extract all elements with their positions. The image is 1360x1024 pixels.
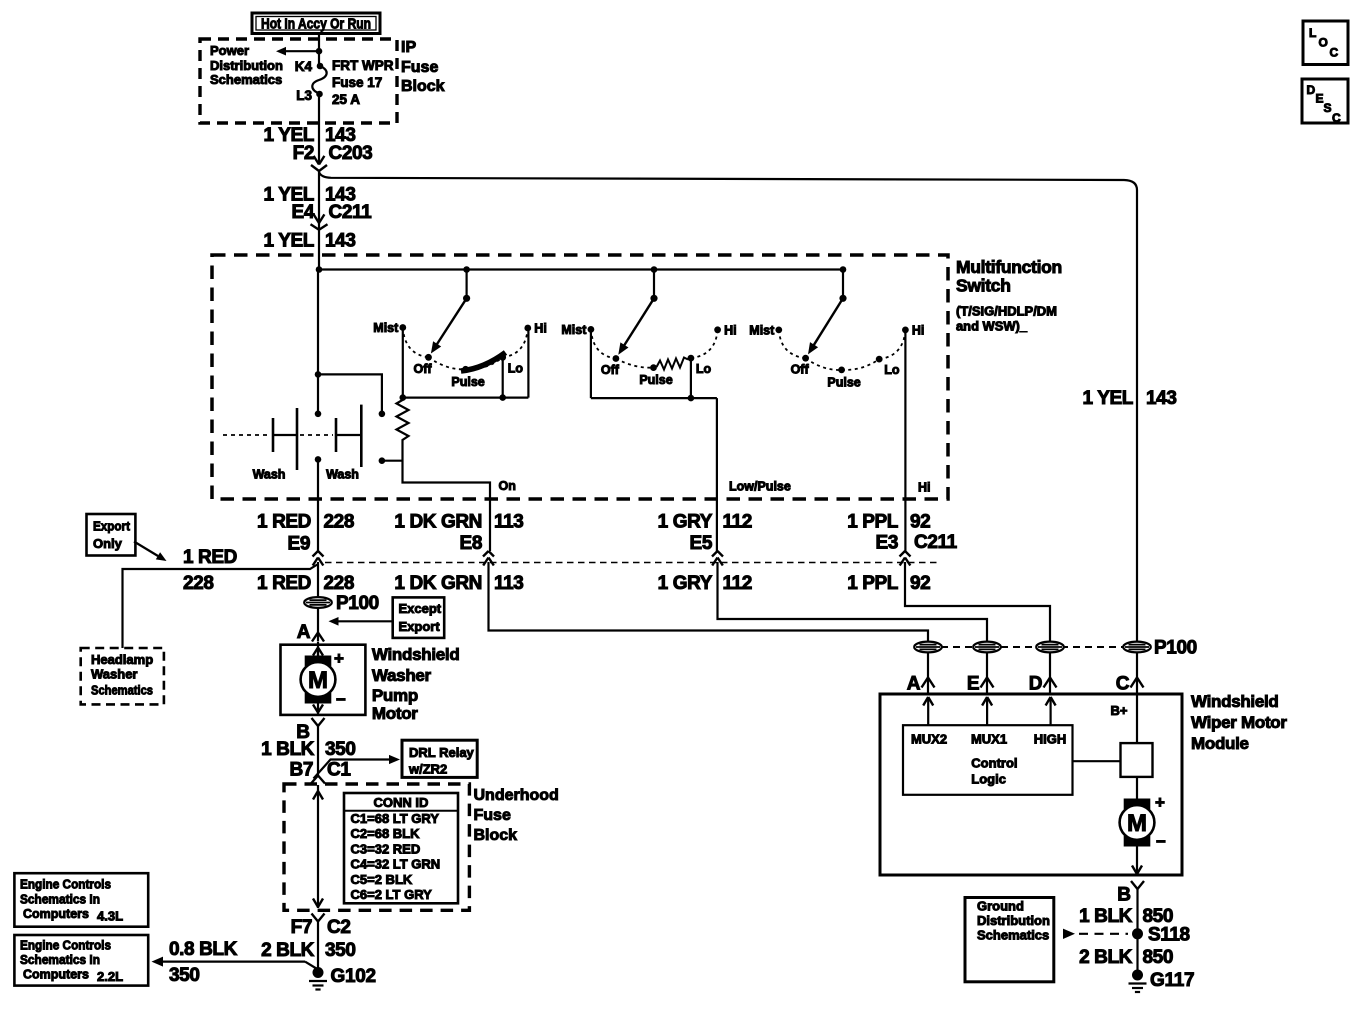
svg-text:Lo: Lo	[508, 361, 524, 375]
svg-text:C2=68 BLK: C2=68 BLK	[351, 826, 421, 841]
svg-text:C5=2 BLK: C5=2 BLK	[351, 872, 413, 887]
svg-text:P100: P100	[336, 593, 379, 614]
svg-text:P100: P100	[1154, 638, 1197, 659]
svg-text:IP: IP	[401, 39, 416, 56]
svg-text:1 RED: 1 RED	[257, 573, 311, 594]
svg-text:Logic: Logic	[971, 772, 1006, 787]
svg-text:Control: Control	[971, 756, 1017, 771]
svg-text:E4: E4	[292, 202, 315, 223]
svg-text:1 YEL: 1 YEL	[1083, 388, 1134, 409]
svg-text:1 RED: 1 RED	[183, 547, 237, 568]
svg-text:+: +	[1155, 793, 1165, 812]
svg-text:B+: B+	[1111, 703, 1128, 718]
svg-text:Mist: Mist	[373, 321, 399, 335]
svg-text:Washer: Washer	[91, 667, 137, 682]
svg-text:G102: G102	[331, 966, 376, 987]
svg-text:G117: G117	[1150, 970, 1194, 991]
svg-text:Windshield: Windshield	[372, 645, 460, 664]
svg-text:25 A: 25 A	[332, 92, 360, 107]
svg-text:MUX1: MUX1	[971, 732, 1007, 747]
svg-text:1 DK GRN: 1 DK GRN	[394, 573, 482, 594]
svg-text:228: 228	[324, 512, 355, 533]
svg-text:Power: Power	[210, 43, 249, 58]
svg-text:(T/SIG/HDLP/DM: (T/SIG/HDLP/DM	[956, 305, 1057, 319]
svg-text:CONN ID: CONN ID	[374, 795, 429, 810]
svg-text:Off: Off	[413, 362, 432, 376]
svg-text:Export: Export	[93, 519, 131, 534]
svg-text:HIGH: HIGH	[1034, 732, 1067, 747]
svg-text:−: −	[1156, 832, 1166, 851]
svg-text:E9: E9	[288, 534, 310, 555]
svg-text:C: C	[1330, 46, 1339, 60]
svg-text:2 BLK: 2 BLK	[1079, 947, 1133, 968]
svg-text:Engine Controls: Engine Controls	[20, 938, 111, 953]
svg-text:D: D	[1307, 83, 1316, 97]
svg-text:113: 113	[494, 573, 523, 594]
svg-text:Pump: Pump	[372, 686, 418, 705]
svg-text:Hi: Hi	[912, 323, 925, 337]
svg-text:C1: C1	[327, 760, 351, 781]
svg-text:Engine Controls: Engine Controls	[20, 877, 111, 892]
svg-text:D: D	[1029, 674, 1043, 695]
svg-text:1 PPL: 1 PPL	[847, 573, 899, 594]
svg-text:4.3L: 4.3L	[97, 909, 123, 924]
svg-text:350: 350	[169, 965, 200, 986]
svg-text:Only: Only	[93, 536, 123, 551]
svg-text:Windshield: Windshield	[1191, 692, 1279, 711]
svg-text:−: −	[336, 690, 346, 709]
svg-text:143: 143	[1146, 388, 1177, 409]
svg-text:E5: E5	[690, 533, 713, 554]
svg-text:Schematics: Schematics	[977, 928, 1049, 943]
svg-text:Computers: Computers	[23, 967, 89, 982]
svg-text:Ground: Ground	[977, 899, 1024, 914]
svg-text:DRL Relay: DRL Relay	[409, 745, 475, 760]
svg-text:228: 228	[324, 573, 355, 594]
svg-text:Mist: Mist	[561, 323, 587, 337]
svg-text:Hi: Hi	[534, 322, 547, 336]
svg-text:On: On	[499, 479, 516, 493]
svg-text:Off: Off	[601, 363, 620, 377]
svg-text:w/ZR2: w/ZR2	[408, 762, 447, 777]
svg-text:Motor: Motor	[372, 704, 418, 723]
svg-text:850: 850	[1143, 947, 1174, 968]
svg-text:E: E	[1316, 92, 1324, 106]
svg-text:92: 92	[910, 512, 930, 533]
svg-text:Export: Export	[399, 619, 441, 634]
svg-text:MUX2: MUX2	[911, 732, 947, 747]
svg-text:1 YEL: 1 YEL	[264, 231, 315, 252]
svg-text:Fuse: Fuse	[401, 59, 438, 76]
svg-text:Washer: Washer	[372, 666, 432, 685]
svg-text:L: L	[1309, 26, 1316, 40]
svg-text:1 BLK: 1 BLK	[261, 739, 315, 760]
svg-text:Distribution: Distribution	[210, 58, 283, 73]
svg-text:M: M	[1127, 810, 1147, 837]
svg-text:Mist: Mist	[749, 323, 775, 337]
svg-text:Lo: Lo	[696, 362, 712, 376]
svg-text:2.2L: 2.2L	[97, 969, 123, 984]
svg-text:S: S	[1324, 101, 1332, 115]
svg-text:C1=68 LT GRY: C1=68 LT GRY	[351, 811, 440, 826]
svg-text:O: O	[1319, 36, 1328, 50]
svg-text:E: E	[967, 674, 980, 695]
svg-text:C: C	[1116, 674, 1130, 695]
svg-text:Except: Except	[399, 601, 442, 616]
svg-text:C211: C211	[914, 532, 958, 553]
svg-text:Pulse: Pulse	[827, 375, 860, 389]
svg-text:Multifunction: Multifunction	[956, 257, 1062, 277]
svg-text:0.8 BLK: 0.8 BLK	[169, 939, 238, 960]
svg-text:350: 350	[325, 940, 356, 961]
svg-text:1 PPL: 1 PPL	[847, 512, 899, 533]
svg-text:112: 112	[723, 512, 752, 533]
svg-text:113: 113	[494, 512, 523, 533]
svg-text:Fuse: Fuse	[474, 807, 511, 824]
svg-text:C3=32 RED: C3=32 RED	[351, 841, 421, 856]
svg-text:Distribution: Distribution	[977, 913, 1050, 928]
svg-text:Pulse: Pulse	[639, 373, 672, 387]
svg-text:Schematics: Schematics	[210, 72, 282, 87]
svg-text:Wiper Motor: Wiper Motor	[1191, 713, 1287, 732]
svg-text:Headlamp: Headlamp	[91, 652, 153, 667]
svg-text:A: A	[907, 674, 921, 695]
svg-text:Schematics: Schematics	[91, 683, 153, 698]
svg-text:C6=2 LT GRY: C6=2 LT GRY	[351, 887, 433, 902]
svg-text:C203: C203	[329, 143, 373, 164]
svg-text:92: 92	[910, 573, 930, 594]
svg-text:1 DK GRN: 1 DK GRN	[394, 512, 482, 533]
svg-text:S118: S118	[1148, 925, 1190, 946]
svg-text:Off: Off	[791, 363, 810, 377]
svg-text:C4=32 LT GRN: C4=32 LT GRN	[351, 857, 441, 872]
svg-text:A: A	[297, 622, 311, 643]
svg-text:E8: E8	[460, 533, 482, 554]
svg-text:350: 350	[325, 739, 356, 760]
svg-text:Underhood: Underhood	[474, 787, 559, 804]
svg-text:+: +	[334, 649, 344, 668]
svg-text:Low/Pulse: Low/Pulse	[729, 480, 791, 494]
svg-text:F2: F2	[293, 143, 314, 164]
svg-text:B: B	[1117, 885, 1131, 906]
svg-text:K4: K4	[295, 59, 313, 74]
svg-text:Hi: Hi	[918, 481, 931, 495]
svg-text:1 BLK: 1 BLK	[1079, 906, 1133, 927]
svg-text:C: C	[1332, 111, 1341, 125]
svg-text:FRT WPR: FRT WPR	[332, 58, 394, 73]
svg-text:Block: Block	[401, 78, 445, 95]
svg-text:Switch: Switch	[956, 276, 1011, 296]
svg-text:Lo: Lo	[884, 363, 900, 377]
svg-text:Fuse 17: Fuse 17	[332, 75, 382, 90]
svg-text:Hot In Accy Or Run: Hot In Accy Or Run	[261, 17, 371, 33]
svg-text:B7: B7	[290, 760, 314, 781]
svg-text:L3: L3	[296, 88, 312, 103]
svg-text:1 RED: 1 RED	[257, 512, 311, 533]
svg-text:Hi: Hi	[724, 323, 737, 337]
svg-text:Module: Module	[1191, 734, 1249, 753]
svg-text:2 BLK: 2 BLK	[261, 940, 315, 961]
svg-text:Schematics In: Schematics In	[20, 892, 100, 907]
svg-text:143: 143	[325, 231, 356, 252]
svg-text:Block: Block	[474, 827, 518, 844]
svg-text:C2: C2	[327, 917, 351, 938]
svg-text:and WSW)_: and WSW)_	[956, 320, 1028, 334]
svg-text:Wash: Wash	[326, 468, 359, 482]
svg-text:Computers: Computers	[23, 906, 89, 921]
svg-text:1 GRY: 1 GRY	[658, 512, 713, 533]
svg-text:C211: C211	[329, 202, 373, 223]
svg-text:E3: E3	[876, 533, 898, 554]
svg-text:M: M	[308, 667, 328, 694]
svg-text:112: 112	[723, 573, 752, 594]
svg-text:Wash: Wash	[253, 468, 286, 482]
svg-text:1 GRY: 1 GRY	[658, 573, 713, 594]
svg-text:F7: F7	[291, 917, 312, 938]
svg-text:228: 228	[183, 573, 214, 594]
svg-text:Pulse: Pulse	[451, 375, 484, 389]
svg-text:Schematics In: Schematics In	[20, 952, 100, 967]
